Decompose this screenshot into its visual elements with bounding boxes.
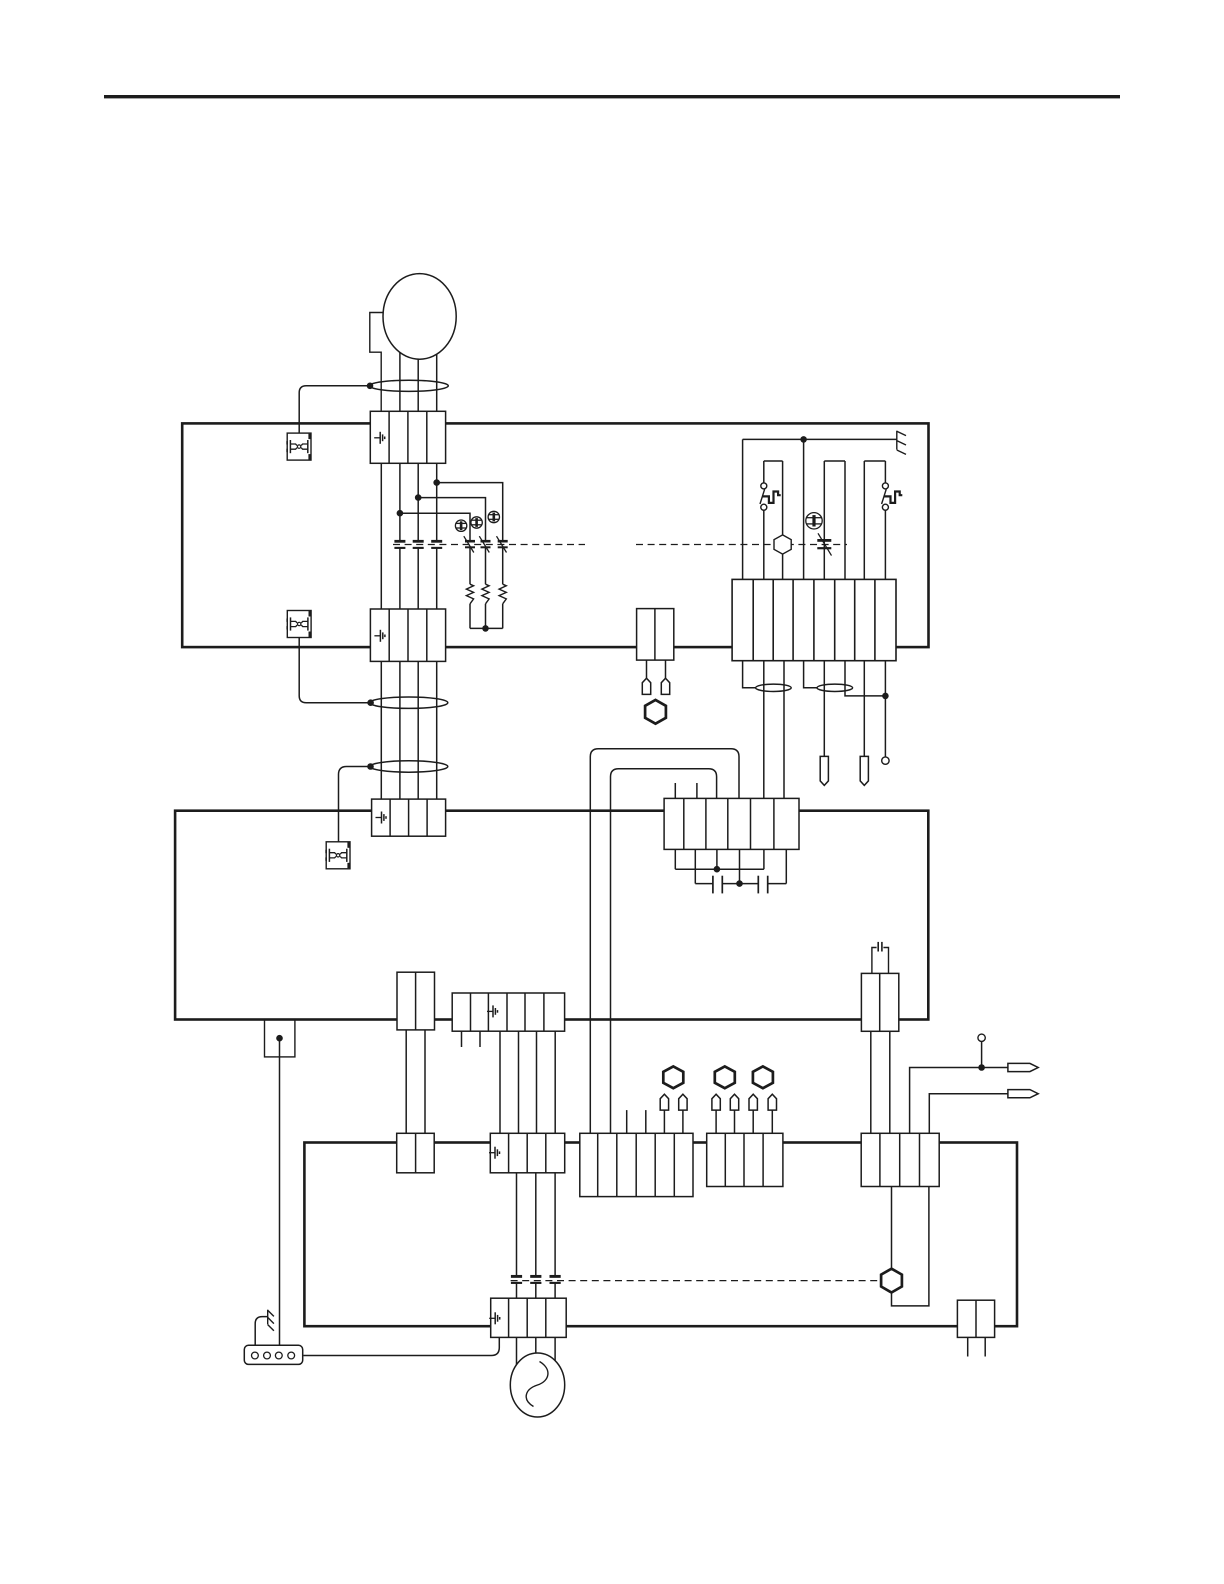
- thermal sensor symbol 3: [488, 511, 499, 522]
- wire ring to junction: [981, 1042, 983, 1068]
- thermal sensor symbol 1: [455, 520, 466, 531]
- wire bundle below block2 lead2: [399, 659, 401, 801]
- hexagon node D: [753, 1066, 773, 1088]
- control board enclosure box: [175, 811, 928, 1020]
- wire resistor 2 to bus: [485, 604, 487, 629]
- wire pin to CN15 1: [715, 1108, 717, 1135]
- capacitor C2 plates: [758, 876, 767, 894]
- cable clamp FL1: [286, 433, 311, 460]
- cable tie 1: [369, 380, 448, 391]
- earth mark in CN11: [489, 1147, 500, 1159]
- wire resistor 3 to bus: [502, 604, 504, 629]
- junction cell6/cell8: [882, 693, 889, 700]
- junction caps mid: [736, 880, 743, 887]
- wire cell5 to pin: [823, 659, 825, 757]
- wire pin to CN15 2: [734, 1108, 736, 1135]
- connector CN13 (4pos): [491, 1298, 567, 1337]
- outdoor unit enclosure box: [304, 1143, 1017, 1327]
- wire below CN7 cell1: [870, 1029, 872, 1135]
- wire column C3: [782, 461, 784, 581]
- resistor R2: [482, 584, 489, 604]
- wire bundle lead 4b: [436, 548, 438, 611]
- wire cap link c: [768, 883, 787, 885]
- wire CN9 to CN11 d: [554, 1031, 556, 1135]
- junction lug1: [978, 1064, 985, 1071]
- wire column C8 upper: [884, 461, 886, 483]
- thermal sensor symbol 2: [471, 517, 482, 528]
- wire bundle lead 1: [380, 461, 382, 611]
- connector CN6 (6pos): [664, 798, 799, 849]
- arrester cap-slash 1: [464, 536, 475, 552]
- terminal pin P9: [749, 1094, 757, 1110]
- wire bundle lead 3b: [417, 548, 419, 611]
- wire CN11 to capacitor 1: [516, 1173, 518, 1276]
- wire junction to terminal strip: [279, 1038, 281, 1353]
- connector CN5 (power 8pos): [732, 579, 896, 660]
- wire CN16 cell2 down: [891, 1187, 893, 1270]
- wire CN13 to compressor 3: [554, 1335, 556, 1385]
- cable tie 3: [370, 761, 448, 772]
- chassis ground bottom left: [268, 1310, 274, 1331]
- wire CN4 pin2: [665, 660, 667, 678]
- wire column C4: [803, 439, 805, 581]
- compressor COMP: [510, 1353, 564, 1417]
- wire CN6 cell5 down: [763, 847, 765, 869]
- arrester cap-slash 3: [497, 536, 508, 552]
- wire tap from lead4: [437, 483, 503, 542]
- hexagon node on C3: [774, 535, 791, 554]
- thermal protector switch S1: [760, 483, 781, 510]
- wire CN13 to compressor 1: [516, 1335, 518, 1385]
- hexagon node B: [663, 1066, 683, 1088]
- capacitor C6: [550, 1276, 561, 1283]
- wire motor lead 3: [417, 355, 419, 413]
- wire capacitor 3 to CN13: [554, 1283, 556, 1300]
- wire CN11 to capacitor 2: [535, 1173, 537, 1276]
- junction on lead3: [415, 494, 422, 501]
- terminal pin P4: [661, 678, 669, 694]
- wire CN6 cell6 down: [785, 847, 787, 883]
- wire bundle below block2 lead3: [417, 659, 419, 801]
- wire motor lead 2: [399, 350, 401, 413]
- wire top bus: [743, 438, 897, 440]
- cable clamp FL2: [286, 611, 311, 638]
- junction at tie3: [367, 763, 374, 770]
- wire column C8 lower: [884, 510, 886, 581]
- wire cap link a: [695, 883, 713, 885]
- wire pin to CN14 2: [682, 1108, 684, 1135]
- stub below CN9 cell1: [461, 1031, 463, 1047]
- earth mark in CN9: [487, 1005, 498, 1017]
- connector CN8 (2pos): [397, 972, 435, 1030]
- hexagon node E: [881, 1269, 902, 1293]
- cable tie 5: [817, 684, 853, 691]
- motor M1: [383, 274, 456, 360]
- stub above CN14 cell4: [645, 1110, 647, 1135]
- wire capacitor 2 to CN13: [535, 1283, 537, 1300]
- connector CN11 (4pos): [490, 1133, 564, 1173]
- resistor common bus: [470, 627, 503, 629]
- capacitor C1 plates: [713, 876, 722, 894]
- wire CN6 cell1 down: [674, 847, 676, 869]
- wire CN6 cell2 down: [694, 847, 696, 883]
- wire CN9 to CN11 c: [536, 1031, 538, 1135]
- arrester cap-slash 2: [479, 536, 490, 552]
- wire cell2 down: [763, 659, 765, 801]
- wire cell1 tap to tie4: [743, 659, 756, 688]
- capacitor on lead2: [394, 541, 405, 548]
- resistor R3: [499, 584, 506, 604]
- wire strip to CN13: [304, 1337, 500, 1355]
- wire tap from lead3: [418, 498, 485, 542]
- thermal protector switch S2: [882, 483, 903, 510]
- terminal pin P7: [712, 1094, 720, 1110]
- wire cell8 to test point: [884, 659, 886, 757]
- connector CN4 (2pos): [637, 609, 674, 661]
- connector CN17 (2pos): [957, 1300, 994, 1337]
- ground lead at strip: [255, 1317, 267, 1346]
- earth mark in CN3: [376, 812, 387, 824]
- resistor R1: [466, 584, 473, 604]
- wire column C2 upper: [763, 461, 765, 483]
- junction on lead4: [433, 479, 440, 486]
- wire resistor 1 to bus: [469, 604, 471, 629]
- connector CN14 (6pos): [580, 1133, 693, 1196]
- wire motor lead 4: [436, 350, 438, 413]
- capacitor C3: [878, 942, 882, 952]
- junction bus cell3: [714, 866, 721, 873]
- wire CN6 cell4 down: [739, 847, 741, 883]
- terminal pin P5: [660, 1094, 668, 1110]
- wire CN13 to compressor 2: [535, 1335, 537, 1385]
- thermal sensor symbol right: [806, 513, 822, 529]
- junction on resistor bus: [482, 625, 489, 632]
- wire pin to CN15 3: [752, 1108, 754, 1135]
- wire cap link b: [722, 883, 758, 885]
- hexagon node A: [645, 700, 666, 724]
- connector CN2: [370, 609, 445, 661]
- wire CN8 to CN10 a: [405, 1030, 407, 1135]
- connector CN3: [372, 799, 446, 836]
- wire bundle lead 2a: [399, 461, 401, 541]
- wire arrester to resistor 1: [469, 547, 471, 584]
- dashed line segment 1: [393, 544, 585, 546]
- earth mark in CN13: [489, 1312, 500, 1324]
- wire bundle below block2 lead4: [436, 659, 438, 801]
- connector CN15 (4pos): [707, 1133, 783, 1186]
- wire lug2 lead: [929, 1094, 1008, 1135]
- wire capacitor 1 to CN13: [516, 1283, 518, 1300]
- wire bundle below block2 lead1: [380, 659, 382, 801]
- wire CN6 cell3 down: [716, 847, 718, 869]
- wire cell7 to pin: [863, 659, 865, 757]
- chassis ground top right: [897, 431, 906, 455]
- wire below CN7 cell2: [889, 1029, 891, 1135]
- terminal strip TB1: [244, 1345, 302, 1364]
- stub below CN17 b: [984, 1337, 986, 1356]
- spade lug 1: [1008, 1063, 1038, 1071]
- wire bundle lead 2b: [399, 548, 401, 611]
- capacitor on lead3: [413, 541, 424, 548]
- arrester cap-slash right: [817, 533, 831, 555]
- stub above CN6 cell1: [674, 783, 676, 800]
- capacitor on lead4: [431, 541, 442, 548]
- winding U1 top: [764, 460, 783, 462]
- junction at tie1: [367, 383, 374, 390]
- capacitor C5: [530, 1276, 541, 1283]
- cable clamp FL3: [325, 842, 350, 869]
- wire tie1 to clamp FL1: [299, 386, 370, 433]
- earth mark in CN1: [374, 432, 385, 444]
- wire CN4 pin1: [646, 660, 648, 678]
- wire cell3 down: [783, 659, 785, 801]
- junction in box: [276, 1035, 283, 1042]
- bus below CN6: [675, 868, 764, 870]
- stub above CN6 cell2: [696, 783, 698, 800]
- motor frame bracket: [370, 313, 384, 414]
- terminal pin P6: [679, 1094, 687, 1110]
- connector CN10 (2pos): [397, 1133, 435, 1173]
- spade lug 2: [1008, 1090, 1038, 1098]
- wire bundle lead 3a: [417, 461, 419, 541]
- wire tie3 to clamp FL3: [339, 767, 371, 842]
- cable tie 2: [370, 697, 448, 708]
- dashed line segment 2: [636, 544, 847, 546]
- earth mark in CN2: [374, 630, 385, 642]
- wire clamp FL2 to tie2: [299, 634, 370, 703]
- link wire outer: [590, 749, 739, 1135]
- wire CN8 to CN10 b: [424, 1030, 426, 1135]
- junction at tie2: [367, 699, 374, 706]
- capacitor C4: [511, 1276, 522, 1283]
- wire cell6 jog: [845, 659, 885, 696]
- wire column C7: [863, 461, 865, 581]
- connector CN7 (2pos): [861, 973, 898, 1031]
- wire arrester to resistor 3: [502, 547, 504, 584]
- indoor unit enclosure box: [182, 423, 928, 647]
- wire pin to CN15 4: [771, 1108, 773, 1135]
- compressor phase curve: [526, 1362, 548, 1407]
- dashed line segment 3: [511, 1280, 885, 1282]
- wire CN11 to capacitor 3: [554, 1173, 556, 1276]
- wire column C6: [844, 461, 846, 581]
- terminal pin P8: [730, 1094, 738, 1110]
- capacitor pedestal: [872, 948, 889, 974]
- wire cell4 tap to tie5: [804, 659, 817, 688]
- test point ring: [882, 757, 889, 764]
- connector CN16 (4pos): [861, 1133, 939, 1186]
- wire pin to CN14 1: [663, 1108, 665, 1135]
- stub below CN9 cell2: [479, 1031, 481, 1047]
- wire tap from lead2: [400, 513, 470, 541]
- terminal pin P3: [642, 678, 650, 694]
- wire column C2 lower: [763, 510, 765, 581]
- wire arrester to resistor 2: [485, 547, 487, 584]
- wire lug1 lead: [910, 1068, 1008, 1136]
- terminal pin P2: [860, 756, 868, 785]
- connector CN9 (6pos): [452, 993, 564, 1031]
- junction on lead2: [397, 510, 404, 517]
- connector CN1 (motor): [370, 411, 445, 463]
- cable tie 4: [756, 684, 792, 691]
- junction box: [265, 1020, 295, 1057]
- test point ring 2: [978, 1034, 985, 1041]
- hexagon node C: [715, 1066, 735, 1088]
- stub above CN14 cell3: [626, 1110, 628, 1135]
- wire hexagon to loop: [892, 1187, 929, 1306]
- wire CN9 to CN11 b: [518, 1031, 520, 1135]
- winding U3 top: [864, 460, 885, 462]
- wire column C1: [742, 439, 744, 581]
- junction on top bus: [800, 436, 807, 443]
- header rule: [104, 95, 1120, 98]
- winding U2 top: [824, 460, 845, 462]
- terminal pin P10: [768, 1094, 776, 1110]
- wire column C5: [823, 461, 825, 581]
- wire CN9 to CN11 a: [499, 1031, 501, 1135]
- stub below CN17 a: [967, 1337, 969, 1356]
- link wire inner: [611, 769, 717, 1135]
- terminal pin P1: [820, 756, 828, 785]
- wire bundle lead 4a: [436, 461, 438, 541]
